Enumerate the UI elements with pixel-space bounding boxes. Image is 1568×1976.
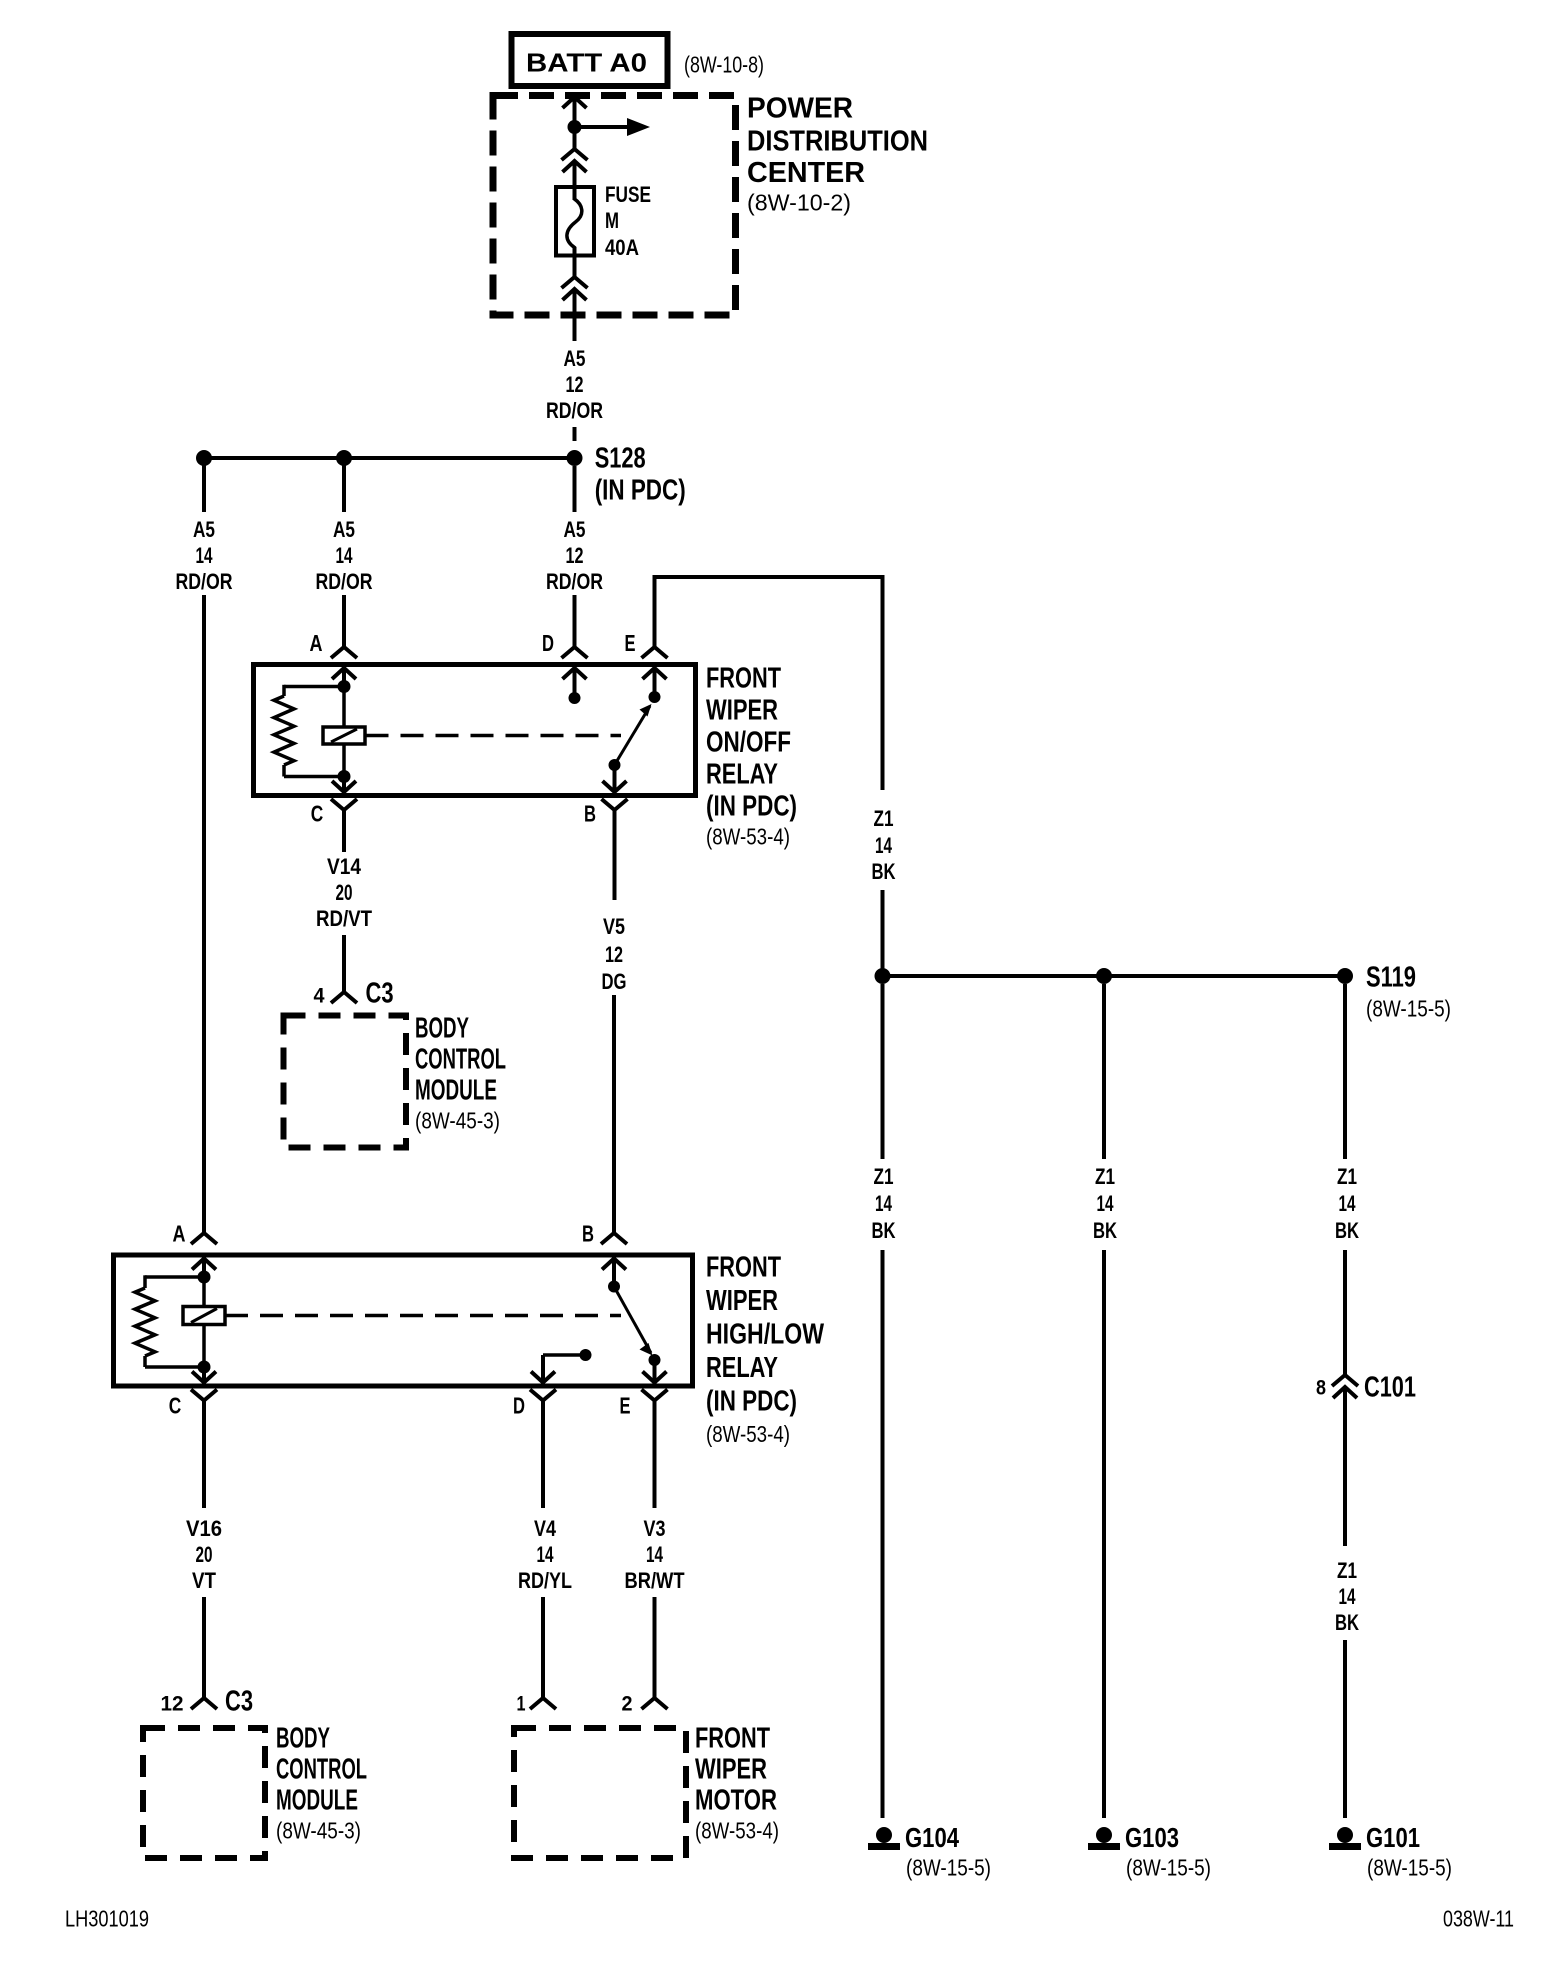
wire to wiper motor pin 1 bbox=[541, 1597, 545, 1699]
svg-text:(IN PDC): (IN PDC) bbox=[706, 1385, 797, 1417]
S119 junction dot 1 bbox=[875, 968, 891, 984]
wire to ground G103 bbox=[1102, 1250, 1106, 1818]
svg-text:12: 12 bbox=[566, 543, 584, 568]
svg-text:A: A bbox=[173, 1220, 186, 1246]
junction node in PDC bbox=[568, 120, 582, 134]
wire to BCM connector C3 pin 12 bbox=[202, 1597, 206, 1699]
svg-text:12: 12 bbox=[161, 1693, 184, 1716]
svg-text:40A: 40A bbox=[605, 235, 639, 260]
relay 1 coil top junction bbox=[338, 680, 351, 693]
svg-text:ON/OFF: ON/OFF bbox=[706, 726, 791, 758]
front wiper on/off relay box bbox=[254, 665, 696, 796]
fuse M 40A bbox=[556, 186, 594, 257]
svg-text:D: D bbox=[542, 630, 554, 656]
svg-text:20: 20 bbox=[196, 1542, 213, 1567]
wire label Z1 14 BK (top right) bbox=[872, 806, 896, 884]
fuse value label FUSE M 40A bbox=[605, 182, 651, 260]
wire Z1 to G104 (upper segment) bbox=[881, 984, 885, 1159]
Power Distribution Center dashed enclosure bbox=[493, 96, 736, 316]
svg-text:C: C bbox=[169, 1392, 182, 1418]
relay 2 coil bbox=[183, 1277, 225, 1367]
svg-text:MOTOR: MOTOR bbox=[695, 1784, 777, 1816]
svg-text:BK: BK bbox=[872, 1218, 896, 1243]
svg-text:2: 2 bbox=[622, 1693, 633, 1716]
wire label Z1 14 BK (col 1) bbox=[872, 1164, 896, 1243]
relay 2 pin B connector bbox=[601, 1233, 627, 1287]
svg-text:FRONT: FRONT bbox=[706, 1251, 781, 1283]
body control module dashed box (upper) bbox=[284, 1016, 407, 1148]
svg-text:RELAY: RELAY bbox=[706, 1352, 778, 1384]
junction dot middle branch bbox=[336, 450, 352, 466]
wire to BCM connector C3 pin 4 bbox=[342, 935, 346, 992]
relay 1 coil bbox=[323, 687, 365, 777]
wire segment to splice S128 (dashed stub) bbox=[573, 427, 577, 441]
svg-text:14: 14 bbox=[875, 833, 893, 858]
svg-text:038W-11: 038W-11 bbox=[1443, 1905, 1514, 1931]
sheet code 038W-11 bbox=[1443, 1905, 1514, 1931]
BCM connector pin 4 bbox=[314, 985, 325, 1008]
svg-text:V4: V4 bbox=[534, 1516, 557, 1541]
relay 1 pin A (letter) bbox=[310, 630, 323, 656]
svg-text:BK: BK bbox=[872, 859, 896, 884]
svg-text:G104: G104 bbox=[905, 1822, 959, 1853]
relay 2 pin C connector bbox=[191, 1367, 217, 1508]
svg-text:Z1: Z1 bbox=[1337, 1558, 1357, 1583]
BATT A0 reference (8W-10-8) bbox=[684, 51, 764, 77]
svg-text:(8W-45-3): (8W-45-3) bbox=[415, 1107, 500, 1133]
in-line connector C101 bbox=[1332, 1371, 1416, 1403]
svg-text:LH301019: LH301019 bbox=[65, 1905, 149, 1931]
in-line connector above fuse bbox=[562, 127, 588, 200]
svg-text:(8W-15-5): (8W-15-5) bbox=[1366, 995, 1451, 1021]
wire label V3 14 BR/WT bbox=[625, 1516, 685, 1593]
relay 1 pin D (letter) bbox=[542, 630, 554, 656]
relay 1 label FRONT WIPER ON/OFF RELAY (IN PDC) (8W-53-4) bbox=[706, 662, 797, 849]
svg-text:S128: S128 bbox=[595, 442, 646, 474]
relay 2 switch common junction bbox=[608, 1281, 620, 1293]
svg-text:BODY: BODY bbox=[276, 1722, 330, 1754]
svg-text:E: E bbox=[620, 1392, 631, 1418]
relay 1 pin A connector bbox=[331, 647, 357, 686]
relay 2 control dashed link bbox=[225, 1314, 621, 1318]
wire label Z1 14 BK (col 3 lower) bbox=[1335, 1558, 1359, 1635]
wire label Z1 14 BK (col 2) bbox=[1093, 1164, 1117, 1243]
wire from S128 to on/off relay pin A (middle branch) bbox=[342, 458, 346, 512]
PDC label POWER DISTRIBUTION CENTER (8W-10-2) bbox=[747, 92, 928, 215]
relay 1 pin C connector bbox=[331, 777, 357, 853]
relay 1 pin D connector bbox=[562, 647, 588, 698]
svg-text:(8W-45-3): (8W-45-3) bbox=[276, 1817, 361, 1843]
svg-text:14: 14 bbox=[1339, 1191, 1357, 1216]
svg-text:Z1: Z1 bbox=[874, 806, 894, 831]
wire label V14 20 RD/VT bbox=[316, 854, 372, 931]
BCM label BODY CONTROL MODULE (8W-45-3) (upper) bbox=[415, 1012, 506, 1133]
svg-text:Z1: Z1 bbox=[874, 1164, 894, 1189]
relay 1 switch arm bbox=[615, 704, 652, 765]
svg-text:CENTER: CENTER bbox=[747, 157, 865, 189]
svg-text:DG: DG bbox=[602, 969, 627, 994]
wire label A5 12 RD/OR (PDC output) bbox=[546, 346, 603, 423]
svg-text:A5: A5 bbox=[193, 517, 215, 542]
relay 2 pin E connector bbox=[642, 1360, 668, 1508]
svg-text:S119: S119 bbox=[1366, 961, 1416, 993]
svg-text:(8W-53-4): (8W-53-4) bbox=[695, 1817, 779, 1843]
svg-text:RD/OR: RD/OR bbox=[316, 569, 373, 594]
svg-text:WIPER: WIPER bbox=[695, 1753, 767, 1785]
svg-text:14: 14 bbox=[875, 1191, 893, 1216]
connector C101 pin 8 bbox=[1316, 1377, 1326, 1400]
svg-text:20: 20 bbox=[336, 880, 353, 905]
BCM connector pin 12 bbox=[161, 1693, 184, 1716]
svg-text:FUSE: FUSE bbox=[605, 182, 651, 207]
svg-text:14: 14 bbox=[1339, 1584, 1357, 1609]
wire label Z1 14 BK (col 3) bbox=[1335, 1164, 1359, 1243]
svg-text:14: 14 bbox=[646, 1542, 664, 1567]
ground G103 bbox=[1088, 1827, 1120, 1850]
wire from fuse to BATT A0 with up arrow bbox=[563, 96, 587, 127]
splice S119 bus wire bbox=[883, 974, 1346, 978]
front wiper high/low relay box bbox=[114, 1255, 693, 1386]
body control module dashed box (lower) bbox=[143, 1728, 265, 1858]
svg-text:(8W-15-5): (8W-15-5) bbox=[906, 1854, 991, 1880]
svg-text:(8W-15-5): (8W-15-5) bbox=[1367, 1854, 1452, 1880]
ground label G104 (8W-15-5) bbox=[905, 1822, 991, 1880]
wire continues to splice S119 bbox=[881, 890, 885, 970]
svg-text:14: 14 bbox=[1097, 1191, 1115, 1216]
relay 1 control dashed link bbox=[366, 734, 622, 738]
svg-text:(8W-10-8): (8W-10-8) bbox=[684, 51, 764, 77]
svg-text:A5: A5 bbox=[333, 517, 355, 542]
ground label G103 (8W-15-5) bbox=[1125, 1822, 1211, 1880]
motor pin 2 connector bbox=[642, 1698, 668, 1709]
wire label A5 14 RD/OR (left) bbox=[176, 517, 233, 594]
svg-text:RD/OR: RD/OR bbox=[546, 569, 603, 594]
wire Z1 to G103 (upper segment) bbox=[1102, 984, 1106, 1159]
relay 1 switch common junction bbox=[609, 759, 621, 771]
relay 2 pin D terminal dot bbox=[580, 1349, 592, 1361]
svg-text:A5: A5 bbox=[564, 517, 586, 542]
wire from S128 to on/off relay pin D (right branch) bbox=[573, 466, 577, 512]
wire continues to relay 1 pin D bbox=[573, 595, 577, 647]
svg-text:G103: G103 bbox=[1125, 1822, 1179, 1853]
wire from S128 to high/low relay pin A (left branch) bbox=[202, 458, 206, 512]
S119 junction dot 2 bbox=[1096, 968, 1112, 984]
connector C3 (upper) bbox=[331, 977, 394, 1009]
relay 1 pin C (letter) bbox=[311, 800, 324, 826]
svg-text:(8W-53-4): (8W-53-4) bbox=[706, 823, 790, 849]
svg-text:(8W-10-2): (8W-10-2) bbox=[747, 189, 851, 215]
svg-text:RD/YL: RD/YL bbox=[518, 1568, 572, 1593]
svg-text:C3: C3 bbox=[366, 977, 394, 1009]
svg-text:DISTRIBUTION: DISTRIBUTION bbox=[747, 125, 928, 157]
BCM label BODY CONTROL MODULE (8W-45-3) (lower) bbox=[276, 1722, 367, 1843]
svg-text:12: 12 bbox=[605, 942, 623, 967]
svg-text:BODY: BODY bbox=[415, 1012, 469, 1044]
svg-text:8: 8 bbox=[1316, 1377, 1326, 1400]
relay 1 pin B connector bbox=[602, 765, 628, 900]
relay 1 pin D terminal dot bbox=[569, 692, 581, 704]
svg-text:14: 14 bbox=[537, 1542, 555, 1567]
svg-text:Z1: Z1 bbox=[1095, 1164, 1115, 1189]
svg-text:1: 1 bbox=[517, 1693, 526, 1716]
svg-text:14: 14 bbox=[196, 543, 214, 568]
svg-text:C101: C101 bbox=[1364, 1371, 1416, 1403]
svg-text:CONTROL: CONTROL bbox=[415, 1043, 506, 1075]
svg-text:(8W-15-5): (8W-15-5) bbox=[1126, 1854, 1211, 1880]
svg-text:RD/OR: RD/OR bbox=[176, 569, 233, 594]
feed arrow to other circuits bbox=[575, 118, 651, 136]
svg-text:E: E bbox=[625, 630, 636, 656]
svg-text:V3: V3 bbox=[644, 1516, 666, 1541]
relay 2 switch arm bbox=[614, 1287, 653, 1356]
relay 2 pin A connector bbox=[191, 1233, 217, 1277]
splice S128 bus wire bbox=[204, 456, 575, 460]
splice label S128 (IN PDC) bbox=[595, 442, 686, 506]
svg-text:D: D bbox=[513, 1392, 525, 1418]
svg-text:B: B bbox=[582, 1220, 594, 1246]
svg-text:12: 12 bbox=[566, 372, 584, 397]
svg-text:FRONT: FRONT bbox=[706, 662, 781, 694]
svg-text:(IN PDC): (IN PDC) bbox=[706, 790, 797, 822]
svg-text:BK: BK bbox=[1335, 1610, 1359, 1635]
motor pin 1 connector bbox=[530, 1698, 556, 1709]
svg-text:BATT A0: BATT A0 bbox=[526, 47, 647, 77]
svg-text:A5: A5 bbox=[564, 346, 586, 371]
relay 2 pin A (letter) bbox=[173, 1220, 186, 1246]
relay 2 pin E terminal dot bbox=[649, 1354, 661, 1366]
relay 1 pin E terminal dot bbox=[649, 691, 661, 703]
svg-text:WIPER: WIPER bbox=[706, 694, 778, 726]
svg-text:BK: BK bbox=[1093, 1218, 1117, 1243]
sheet code LH301019 bbox=[65, 1905, 149, 1931]
svg-text:Z1: Z1 bbox=[1337, 1164, 1357, 1189]
svg-text:BK: BK bbox=[1335, 1218, 1359, 1243]
svg-text:CONTROL: CONTROL bbox=[276, 1753, 367, 1785]
wire label V5 12 DG bbox=[602, 914, 627, 994]
svg-text:V5: V5 bbox=[603, 914, 625, 939]
relay 2 pin E (letter) bbox=[620, 1392, 631, 1418]
wire label V16 20 VT bbox=[186, 1516, 222, 1593]
relay 1 coil bottom junction bbox=[338, 770, 351, 783]
wire from relay 1 pin B to relay 2 pin B bbox=[612, 995, 616, 1233]
svg-text:C3: C3 bbox=[225, 1685, 253, 1717]
relay 2 coil bottom junction bbox=[198, 1361, 211, 1374]
relay 2 coil top junction bbox=[198, 1271, 211, 1284]
wire from relay 1 pin E up and right to ground net bbox=[653, 577, 885, 790]
svg-text:RD/VT: RD/VT bbox=[316, 906, 372, 931]
relay 2 pin D connector bbox=[530, 1355, 586, 1508]
relay 1 pin B (letter) bbox=[584, 800, 596, 826]
svg-text:WIPER: WIPER bbox=[706, 1285, 778, 1317]
splice S128 node bbox=[567, 450, 583, 466]
motor pin 2 bbox=[622, 1693, 633, 1716]
wire to ground G104 bbox=[881, 1250, 885, 1818]
ground label G101 (8W-15-5) bbox=[1366, 1822, 1452, 1880]
svg-text:4: 4 bbox=[314, 985, 325, 1008]
svg-text:G101: G101 bbox=[1366, 1822, 1420, 1853]
junction dot left branch bbox=[196, 450, 212, 466]
wire to wiper motor pin 2 bbox=[653, 1597, 657, 1699]
relay 2 pin C (letter) bbox=[169, 1392, 182, 1418]
connector C3 (lower) bbox=[191, 1685, 253, 1717]
wire label A5 12 RD/OR (right) bbox=[546, 517, 603, 594]
svg-text:V14: V14 bbox=[327, 854, 362, 879]
relay 2 label FRONT WIPER HIGH/LOW RELAY (IN PDC) (8W-53-4) bbox=[706, 1251, 824, 1446]
svg-text:B: B bbox=[584, 800, 596, 826]
svg-text:V16: V16 bbox=[186, 1516, 222, 1541]
relay 2 pin B (letter) bbox=[582, 1220, 594, 1246]
svg-text:14: 14 bbox=[336, 543, 354, 568]
in-line connector below fuse bbox=[562, 247, 588, 341]
relay 2 suppression resistor bbox=[135, 1275, 204, 1367]
battery feed BATT A0 box bbox=[512, 34, 668, 86]
svg-text:A: A bbox=[310, 630, 323, 656]
wire to ground G101 bbox=[1343, 1640, 1347, 1818]
svg-text:MODULE: MODULE bbox=[415, 1074, 497, 1106]
ground G104 bbox=[868, 1827, 900, 1850]
svg-text:POWER: POWER bbox=[747, 92, 853, 124]
relay 1 pin E connector bbox=[642, 647, 668, 697]
motor pin 1 bbox=[517, 1693, 526, 1716]
svg-text:HIGH/LOW: HIGH/LOW bbox=[706, 1318, 824, 1350]
splice S119 node bbox=[1337, 968, 1353, 984]
svg-text:RELAY: RELAY bbox=[706, 758, 778, 790]
splice label S119 (8W-15-5) bbox=[1366, 961, 1451, 1021]
svg-text:FRONT: FRONT bbox=[695, 1722, 770, 1754]
motor label FRONT WIPER MOTOR (8W-53-4) bbox=[695, 1722, 779, 1843]
wire Z1 to C101 (upper segment) bbox=[1343, 984, 1347, 1159]
wire continues to relay 1 pin A bbox=[342, 595, 346, 647]
relay 1 suppression resistor bbox=[274, 685, 344, 777]
svg-text:(IN PDC): (IN PDC) bbox=[595, 474, 686, 506]
relay 2 pin D (letter) bbox=[513, 1392, 525, 1418]
wire below C101 bbox=[1343, 1386, 1347, 1546]
wire down to connector C101 bbox=[1343, 1250, 1347, 1376]
svg-text:RD/OR: RD/OR bbox=[546, 398, 603, 423]
svg-text:MODULE: MODULE bbox=[276, 1784, 358, 1816]
svg-text:BR/WT: BR/WT bbox=[625, 1568, 685, 1593]
svg-text:C: C bbox=[311, 800, 324, 826]
relay 1 pin E (letter) bbox=[625, 630, 636, 656]
svg-text:M: M bbox=[605, 208, 619, 233]
ground G101 bbox=[1329, 1827, 1361, 1850]
svg-text:(8W-53-4): (8W-53-4) bbox=[706, 1421, 790, 1447]
wire label A5 14 RD/OR (middle) bbox=[316, 517, 373, 594]
wire label V4 14 RD/YL bbox=[518, 1516, 572, 1593]
wire continues to relay 2 pin A bbox=[202, 595, 206, 1233]
front wiper motor dashed box bbox=[514, 1728, 686, 1858]
svg-text:VT: VT bbox=[192, 1568, 216, 1593]
